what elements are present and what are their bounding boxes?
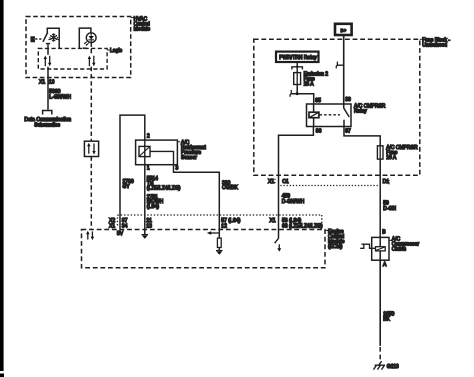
bidirectional arrows logic left xyxy=(44,56,52,67)
svg-text:G113: G113 xyxy=(387,364,399,370)
switch S: A/C request switch xyxy=(31,28,60,49)
svg-text:D-GN: D-GN xyxy=(383,206,396,212)
wire label 5060 L-GN/WH xyxy=(49,89,71,101)
svg-text:X1: X1 xyxy=(268,179,274,185)
svg-text:X1: X1 xyxy=(270,218,276,224)
module ECM box xyxy=(82,229,345,268)
svg-text:X1: X1 xyxy=(109,223,115,229)
wire 2700 GY with loop to sensor pin 2 xyxy=(120,115,145,229)
fuse F Emission 2 15A xyxy=(292,63,328,88)
off-page connector bracket xyxy=(43,111,52,115)
svg-text:D1: D1 xyxy=(383,179,390,185)
resistor xyxy=(217,238,221,247)
svg-text:C1: C1 xyxy=(282,179,289,185)
connector row X1 C1 D1 xyxy=(268,179,389,186)
junction xyxy=(296,92,299,95)
serial data arrows in ECM xyxy=(86,231,94,240)
wire fuse to D1 xyxy=(379,159,381,175)
label Data Communication Schematics xyxy=(24,117,71,128)
wire 5514/2751 sensor pin 1 to ECM xyxy=(144,165,146,230)
svg-text:10 A: 10 A xyxy=(386,155,397,161)
ECM connector row (dotted bracket) xyxy=(109,215,322,229)
svg-text:GY: GY xyxy=(123,184,131,190)
in-line connector on B+ wire xyxy=(336,62,344,69)
svg-text:63 (LZE/LZ4/LZG): 63 (LZE/LZ4/LZG) xyxy=(282,223,323,229)
PWR/TRN Relay label box xyxy=(276,52,319,62)
svg-text:12: 12 xyxy=(221,223,227,229)
serial data link symbol xyxy=(84,141,98,156)
svg-text:Logic: Logic xyxy=(110,48,122,54)
svg-text:Module: Module xyxy=(134,27,151,33)
ground (sensor return in ECM) xyxy=(142,230,149,239)
pin label X1 13 xyxy=(39,79,55,85)
svg-text:Sensor: Sensor xyxy=(181,155,197,161)
svg-text:30: 30 xyxy=(345,97,351,103)
svg-text:Schematics: Schematics xyxy=(34,122,60,128)
svg-text:34: 34 xyxy=(122,223,128,229)
svg-text:13: 13 xyxy=(49,79,55,85)
svg-text:85: 85 xyxy=(315,98,321,104)
wire B+ to relay pin 30 xyxy=(343,35,345,104)
svg-text:15 A: 15 A xyxy=(304,82,315,88)
svg-text:BK: BK xyxy=(383,317,390,323)
svg-text:13: 13 xyxy=(146,223,152,229)
svg-text:A: A xyxy=(383,262,387,268)
wire 380 OG/BK sensor pin 3 to ECM xyxy=(174,165,220,230)
ground G113 xyxy=(374,361,399,370)
serial data wire (dashed) HVAC to gateway xyxy=(90,43,92,140)
clutch coil A/C Compressor Clutch xyxy=(360,230,419,269)
svg-text:B: B xyxy=(382,230,386,236)
svg-text:(LZE/LZ4/LZG): (LZE/LZ4/LZG) xyxy=(147,186,181,192)
sensor A/C Refrigerant Pressure xyxy=(136,134,207,172)
svg-text:E: E xyxy=(31,38,35,44)
svg-text:OG/BK: OG/BK xyxy=(222,185,239,191)
wire fuse to relay pin 85 xyxy=(291,85,313,105)
snowflake icon (A/C) xyxy=(48,33,59,41)
svg-text:5V: 5V xyxy=(117,231,124,237)
signal branch arrow + pull resistor in ECM xyxy=(207,230,223,255)
wire 59 D-GN xyxy=(379,175,381,235)
bidirectional arrows logic right xyxy=(88,56,96,67)
svg-text:X1: X1 xyxy=(39,79,45,85)
B+ battery feed xyxy=(335,24,352,35)
svg-text:PWR/TRN Relay: PWR/TRN Relay xyxy=(279,55,317,61)
svg-text:3: 3 xyxy=(176,166,179,172)
wire 459 D-GN/WH xyxy=(278,175,280,229)
serial data wire (dashed) gateway to ECM xyxy=(90,157,92,230)
fuse F A/C CMPRSR 10A xyxy=(377,145,418,161)
logic block xyxy=(38,48,122,69)
svg-text:(ECM): (ECM) xyxy=(328,244,343,250)
ground xyxy=(216,250,223,252)
svg-text:Relay: Relay xyxy=(354,109,367,115)
wire relay 86 to X1-C1 xyxy=(279,127,314,176)
svg-text:87: 87 xyxy=(345,129,351,135)
wire 1050 BK xyxy=(379,260,381,346)
svg-text:2: 2 xyxy=(147,134,150,140)
wire relay 87 to fuse xyxy=(344,127,380,146)
svg-text:(LS4): (LS4) xyxy=(147,204,160,210)
svg-text:L-GN/WH: L-GN/WH xyxy=(49,94,71,100)
clutch driver output (switch to low) in ECM xyxy=(275,230,282,252)
wire 5060 to X1-13 xyxy=(47,49,49,110)
indicator lamp (A/C LED) xyxy=(79,28,96,48)
svg-text:D-GN/WH: D-GN/WH xyxy=(282,199,305,205)
in-line connector hook xyxy=(290,90,291,97)
svg-text:Underhood: Underhood xyxy=(422,43,447,49)
svg-text:Clutch: Clutch xyxy=(392,246,406,252)
pin label X1 53/63 xyxy=(270,218,323,229)
relay K A/C CMPRSR xyxy=(307,97,386,135)
svg-text:B+: B+ xyxy=(341,28,347,33)
module HVAC Control Module xyxy=(26,17,150,78)
svg-text:86: 86 xyxy=(316,129,322,135)
svg-text:1: 1 xyxy=(147,166,150,172)
fuse block underhood box xyxy=(254,37,451,175)
